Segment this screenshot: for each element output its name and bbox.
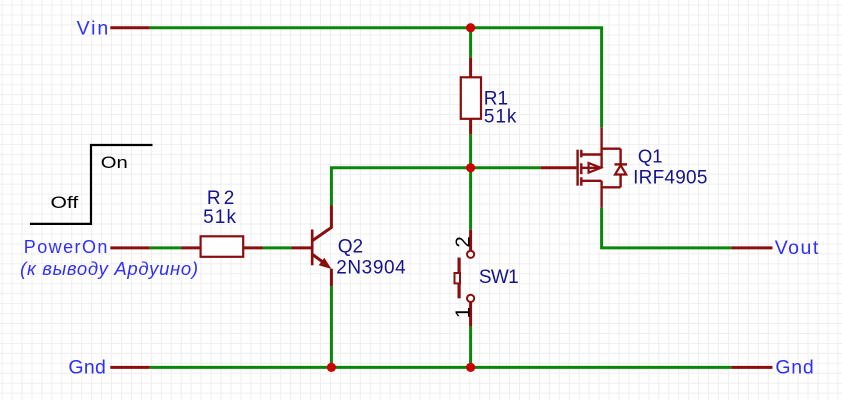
svg-text:SW1: SW1 bbox=[479, 267, 519, 288]
svg-text:IRF4905: IRF4905 bbox=[633, 167, 707, 188]
svg-text:Off: Off bbox=[51, 193, 79, 212]
svg-text:(к выводу Ардуино): (к выводу Ардуино) bbox=[20, 258, 198, 279]
svg-text:2: 2 bbox=[452, 236, 475, 247]
svg-text:Gnd: Gnd bbox=[68, 357, 105, 379]
svg-text:Gnd: Gnd bbox=[775, 357, 813, 379]
svg-text:2N3904: 2N3904 bbox=[336, 258, 406, 279]
svg-text:1: 1 bbox=[452, 307, 475, 318]
svg-text:R2: R2 bbox=[207, 188, 234, 209]
svg-text:Vout: Vout bbox=[775, 237, 819, 259]
svg-text:51k: 51k bbox=[203, 207, 236, 228]
svg-text:PowerOn: PowerOn bbox=[24, 237, 108, 257]
svg-text:Q2: Q2 bbox=[338, 236, 363, 257]
svg-text:On: On bbox=[101, 153, 128, 172]
svg-text:51k: 51k bbox=[484, 107, 517, 128]
svg-text:Q1: Q1 bbox=[638, 145, 663, 166]
svg-text:Vin: Vin bbox=[77, 17, 109, 39]
